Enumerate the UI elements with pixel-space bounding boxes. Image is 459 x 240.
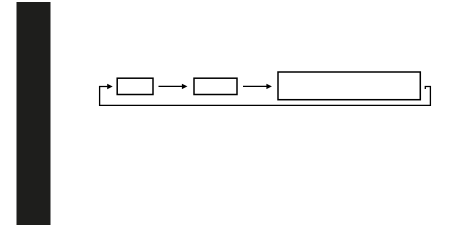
wire: feedback loop from box U3 output back to box U1 input (100, 87, 431, 106)
sidebar bar (17, 2, 51, 225)
arrow box U2 to box U3 (243, 84, 272, 89)
box U3 (278, 72, 420, 100)
arrowhead into box U1 (107, 84, 113, 89)
box U1 (117, 78, 153, 94)
box U2 (194, 78, 237, 94)
arrow box U1 to box U2 (159, 84, 188, 89)
